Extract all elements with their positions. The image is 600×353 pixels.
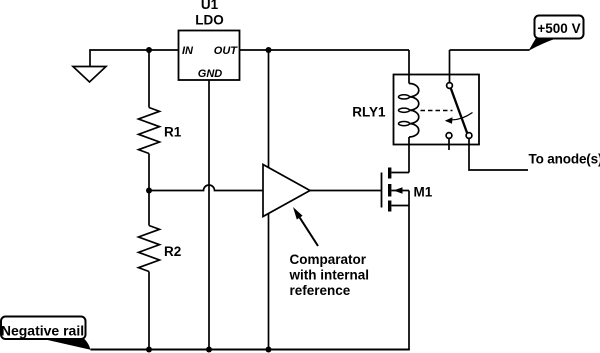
net flag Negative rail bbox=[1, 317, 86, 340]
wire: junction down to R1 bbox=[148, 50, 150, 108]
flag tail Negative rail bbox=[41, 339, 91, 350]
switch NO contact bbox=[466, 133, 472, 139]
node: rail junction dot GND wire bbox=[206, 347, 212, 353]
wire: M1 source down to negative rail corner bbox=[408, 206, 410, 350]
resistor R2 bbox=[139, 226, 160, 272]
relay RLY1 box bbox=[394, 75, 480, 145]
relay linkage dashed line bbox=[421, 110, 453, 112]
svg-text:OUT: OUT bbox=[214, 45, 239, 57]
svg-text:reference: reference bbox=[290, 283, 351, 298]
source stub bbox=[391, 205, 409, 207]
svg-text:IN: IN bbox=[182, 45, 194, 57]
wire: divider node to R2 bbox=[148, 191, 150, 226]
coil loop ellipses bbox=[399, 95, 410, 99]
wire: +500V flag to switch bbox=[450, 49, 530, 51]
wire: U1 OUT to relay coil top bbox=[240, 49, 410, 51]
switch common contact bbox=[447, 83, 453, 89]
wire: R2 bottom to negative rail bbox=[148, 272, 150, 350]
wire: NC stub bbox=[448, 138, 450, 150]
switch throw arrow bbox=[445, 113, 473, 124]
node: junction dot on OUT wire bbox=[266, 47, 272, 53]
svg-text:Comparator: Comparator bbox=[290, 252, 367, 267]
transistor M1 (NMOS) bbox=[382, 168, 410, 212]
wire: comparator output to M1 gate bbox=[310, 190, 382, 192]
switch blade bbox=[451, 88, 467, 132]
net flag +500 V bbox=[535, 16, 584, 39]
gate bar bbox=[381, 173, 383, 208]
wire: U1 GND pin down to negative rail bbox=[208, 80, 210, 350]
wire: coil bottom to M1 drain bbox=[408, 137, 410, 173]
wire: NO contact to anodes bbox=[469, 138, 528, 170]
svg-text:GND: GND bbox=[198, 68, 223, 80]
node: rail junction dot R2 bbox=[146, 347, 152, 353]
svg-text:Negative rail: Negative rail bbox=[1, 323, 84, 339]
svg-text:with internal: with internal bbox=[289, 268, 370, 283]
wire: divider node to comparator input with hop over GND wire bbox=[149, 185, 263, 191]
switch NC contact bbox=[446, 133, 452, 139]
body stub with arrow bbox=[391, 190, 409, 192]
svg-text:RLY1: RLY1 bbox=[352, 105, 386, 120]
svg-text:R1: R1 bbox=[164, 125, 182, 140]
node: junction dot U1 IN / R1 top bbox=[146, 47, 152, 53]
channel bar drain bbox=[388, 168, 391, 179]
channel bar body bbox=[388, 184, 391, 197]
wire: comparator supply from OUT node down to negative rail bbox=[268, 50, 270, 350]
annotation arrow to comparator bbox=[293, 207, 318, 246]
svg-text:LDO: LDO bbox=[195, 13, 224, 28]
resistor R1 bbox=[139, 108, 160, 154]
svg-text:+500 V: +500 V bbox=[537, 21, 580, 36]
IC U1 (LDO) bbox=[179, 31, 240, 81]
flag tail +500V bbox=[529, 38, 558, 51]
annotation text: Comparator with internal reference bbox=[289, 252, 370, 298]
drain stub bbox=[391, 172, 409, 174]
wire: coil top to OUT wire bbox=[408, 50, 410, 84]
wire: negative rail bbox=[91, 349, 410, 351]
body-source tie bbox=[408, 191, 410, 206]
svg-text:M1: M1 bbox=[414, 185, 433, 200]
wire: R1 bottom to divider node bbox=[148, 154, 150, 191]
svg-text:R2: R2 bbox=[164, 244, 181, 259]
svg-text:U1: U1 bbox=[201, 0, 219, 12]
wire: +500V rail down to switch common bbox=[449, 50, 451, 83]
svg-text:To anode(s): To anode(s) bbox=[529, 152, 600, 167]
node: divider junction dot bbox=[146, 188, 152, 194]
node: rail junction dot comparator supply bbox=[266, 347, 272, 353]
channel bar source bbox=[388, 201, 391, 212]
ground bbox=[73, 67, 106, 83]
relay coil bbox=[409, 83, 419, 137]
op-amp comparator bbox=[263, 165, 310, 217]
wire: ground stem to top rail bbox=[90, 50, 179, 67]
